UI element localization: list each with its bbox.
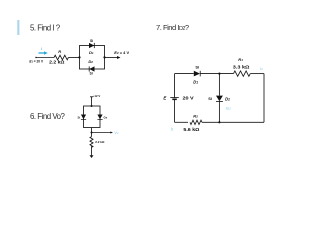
svg-text:Si: Si [90, 71, 93, 75]
svg-text:I2: I2 [260, 66, 263, 71]
svg-text:2.2 kΩ: 2.2 kΩ [95, 140, 105, 144]
svg-text:5.6 kΩ: 5.6 kΩ [183, 127, 200, 132]
svg-text:R1: R1 [238, 57, 243, 62]
svg-text:20 V: 20 V [183, 96, 194, 101]
svg-text:D2: D2 [88, 59, 93, 64]
svg-text:5. Find I ?: 5. Find I ? [30, 23, 61, 32]
svg-text:Vo: Vo [114, 130, 119, 135]
svg-text:Si: Si [195, 64, 199, 69]
svg-text:ID2: ID2 [226, 105, 231, 110]
svg-text:Si: Si [90, 39, 93, 43]
svg-text:Ge: Ge [104, 116, 108, 120]
svg-text:7. Find ID2?: 7. Find ID2? [156, 23, 189, 32]
svg-text:R: R [58, 49, 61, 54]
svg-text:D1: D1 [89, 50, 94, 55]
svg-text:I: I [41, 46, 43, 51]
svg-text:E1 = 20 V: E1 = 20 V [29, 60, 43, 64]
svg-text:R2: R2 [193, 114, 198, 119]
svg-text:D2: D2 [225, 96, 230, 101]
svg-text:6. Find Vo?: 6. Find Vo? [30, 112, 66, 121]
svg-text:Si: Si [78, 116, 81, 120]
svg-text:3.3 kΩ: 3.3 kΩ [233, 64, 250, 69]
svg-text:Si: Si [208, 96, 212, 101]
svg-text:D1: D1 [193, 80, 198, 85]
svg-text:I1: I1 [171, 127, 174, 132]
svg-text:E: E [163, 96, 167, 101]
svg-text:2.2 kΩ: 2.2 kΩ [49, 59, 65, 64]
svg-text:E2 = 4 V: E2 = 4 V [114, 50, 129, 55]
svg-text:+12 V: +12 V [93, 94, 101, 98]
